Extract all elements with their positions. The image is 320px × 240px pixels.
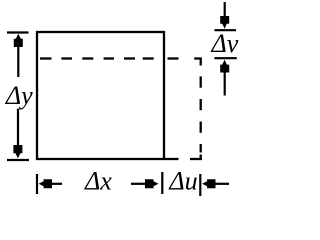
- dashed bottom line: [165, 158, 202, 160]
- lower tick: [214, 57, 236, 59]
- upper stem: [224, 2, 226, 18]
- dim dy: left vertical dimension: [7, 33, 29, 161]
- top tick: [7, 31, 29, 33]
- dim dv: top right vertical dimension: [214, 2, 236, 96]
- arrowhead up (dv bottom): [220, 60, 229, 73]
- svg-text:Δu: Δu: [168, 167, 197, 196]
- solid rectangle: [37, 32, 164, 159]
- svg-text:Δx: Δx: [84, 166, 112, 195]
- left arrow tail: [50, 183, 62, 185]
- arrowhead right (dx right): [145, 179, 159, 188]
- tick under left edge: [36, 174, 38, 194]
- dashed top line: [40, 57, 202, 59]
- svg-text:Δy: Δy: [5, 81, 33, 110]
- tick under right edge: [161, 172, 163, 194]
- bottom tick: [7, 159, 29, 161]
- far right arrow tail: [214, 183, 229, 185]
- upper stem: [17, 45, 19, 77]
- right arrow tail: [131, 183, 146, 185]
- arrowhead left (du right outer): [202, 179, 215, 188]
- lower stem: [17, 109, 19, 147]
- dashed right line: [200, 58, 202, 160]
- arrowhead left (dx left): [39, 179, 52, 188]
- tick under dashed line: [199, 174, 201, 196]
- bottom dimension line: [37, 172, 229, 196]
- arrowhead down (dv top): [220, 16, 229, 29]
- arrowhead up (dy top): [14, 34, 23, 47]
- svg-text:Δv: Δv: [211, 29, 239, 58]
- lower stem: [224, 69, 226, 96]
- upper tick: [215, 29, 237, 31]
- arrowhead down (dy bottom): [13, 145, 22, 158]
